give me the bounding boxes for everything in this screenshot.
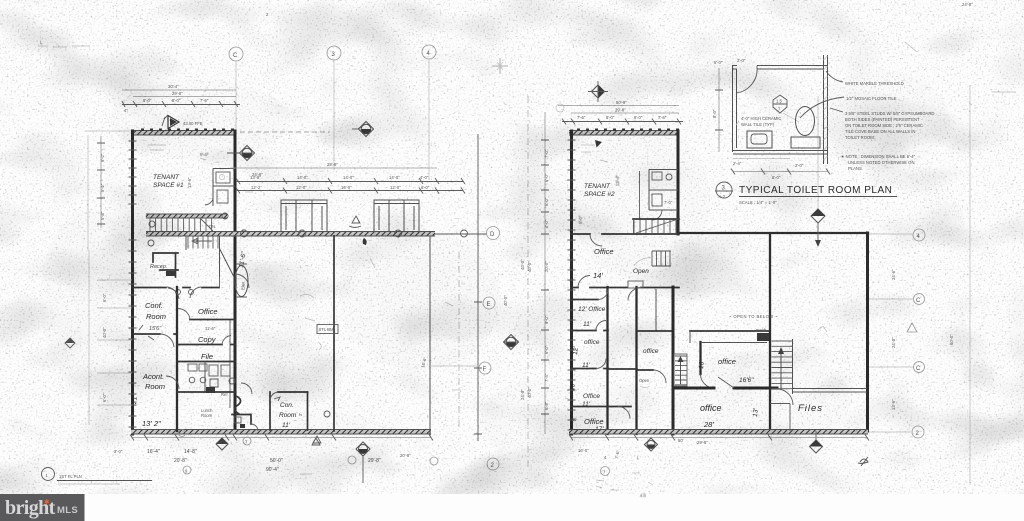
detail title text — [739, 185, 897, 205]
acct room door arc — [166, 376, 179, 389]
storefront wall (hatched) — [146, 232, 487, 237]
office row2 wall — [571, 321, 608, 331]
stray pencil marks bottom centre — [300, 474, 653, 498]
pencil check mark — [818, 326, 827, 332]
con room west wall — [269, 392, 271, 430]
top dimension 30'-4 — [122, 84, 236, 90]
text Lunch Room — [201, 408, 213, 418]
corridor door frame — [628, 281, 643, 288]
north marker diamond — [588, 81, 608, 102]
toilets block — [177, 362, 235, 393]
between plans dim line — [541, 112, 549, 434]
stair lower flight — [186, 236, 234, 277]
right plan bottom circles — [596, 467, 640, 482]
faint mark top right — [905, 2, 1016, 92]
text TENANT SPACE #2 — [584, 183, 615, 198]
toilet detail right wall — [824, 55, 828, 164]
tenant 1 toilet room — [205, 169, 235, 207]
between plans dashed grid — [527, 96, 529, 470]
section diamond upper grid — [352, 122, 374, 137]
wall between open area and office — [769, 234, 771, 431]
right margin bubble row top — [869, 229, 925, 241]
wall office/copy — [178, 308, 235, 319]
stair 3 — [674, 354, 687, 386]
right plan bottom dim texts — [578, 438, 708, 460]
text copy room — [198, 326, 217, 344]
interior wall office column — [176, 287, 178, 431]
storefront dim 29'-8 — [230, 162, 437, 177]
text office row3 — [569, 381, 600, 408]
text Acont Room — [142, 372, 165, 391]
stair upper flight — [146, 214, 227, 231]
storefront bay window 2 — [374, 200, 419, 233]
right margin bubble 2 — [869, 426, 924, 438]
elevator — [235, 264, 248, 297]
top wall mullion dots — [141, 128, 234, 130]
toilet detail left wall — [733, 65, 737, 152]
left wall window ticks — [129, 141, 137, 427]
signature mark — [858, 457, 868, 466]
sink fixture — [747, 131, 772, 148]
bottom diamond 2 — [356, 442, 370, 483]
right plan top dim 50'-2 — [558, 100, 679, 106]
text Conf Room — [145, 301, 166, 332]
bottom arrow diamond — [216, 438, 228, 450]
note white marble threshold — [826, 71, 904, 86]
toilet detail right wall hatch — [824, 56, 828, 160]
corridor cross wall — [608, 368, 637, 370]
grid line D vertical — [477, 134, 479, 441]
survey cross mark — [492, 58, 508, 74]
wall file/toilets — [177, 361, 235, 363]
faint ledger line — [430, 365, 478, 367]
bottom bubbles — [179, 430, 439, 475]
bottom tick line — [130, 435, 433, 441]
right plan tick dims — [562, 115, 683, 125]
note steel studs paragraph — [830, 108, 934, 140]
stair 1 treads — [633, 219, 679, 234]
centre line (dash-dot) — [458, 252, 460, 428]
bubble F low — [479, 362, 491, 374]
bottom bubble labels — [185, 436, 321, 474]
ceramic tile note — [736, 116, 781, 127]
triangle below wall — [312, 438, 320, 445]
svg-text:MLS: MLS — [57, 505, 78, 516]
dark pencil blob — [363, 238, 367, 245]
main wall office28 north — [673, 377, 777, 388]
sheet note bubble — [42, 468, 153, 485]
alcove wall — [690, 330, 770, 332]
wall conf/accounting — [132, 325, 177, 347]
bubble low right — [487, 458, 499, 470]
wall office14 south — [571, 276, 679, 301]
grid bubble 3 — [327, 46, 341, 60]
tenant 2 toilet room — [649, 170, 678, 221]
grid line 3 — [333, 60, 335, 170]
left margin upper dim line — [97, 136, 105, 228]
vestibule curved wall — [235, 396, 241, 414]
stair 1 diagonal break — [636, 219, 678, 233]
bubble E mid — [483, 297, 495, 309]
tenant 2 top wall (hatched) — [569, 131, 679, 136]
dim 40-0 rotated left of right plan — [527, 261, 532, 398]
open marks below room A — [639, 378, 650, 388]
tenant space 1 left wall — [131, 131, 134, 434]
paper speckles — [91, 40, 952, 451]
section marker below right plan — [810, 431, 823, 453]
between plans rotated dims — [544, 149, 549, 410]
stair 2 — [634, 251, 671, 266]
rotated dims right of open area — [503, 259, 525, 400]
corridor inner wall — [655, 289, 657, 331]
paper noise blotches — [40, 70, 950, 470]
note dimension wall — [841, 154, 916, 171]
toilet detail door arc — [736, 66, 757, 94]
text TENANT SPACE #1 — [153, 174, 184, 189]
office 16 west wall — [690, 331, 715, 388]
pencil notes tenant 1 — [148, 145, 253, 192]
right margin bubble C1 — [869, 294, 925, 305]
stair 4 — [772, 339, 793, 394]
right plan left wall window ticks — [568, 140, 576, 430]
top dimension ticks 8'-0 8'-0 7'-6 — [122, 98, 240, 113]
wall under tenant 2 — [571, 234, 679, 246]
corridor east wall — [234, 131, 237, 431]
open area partition wall — [333, 236, 335, 431]
right plan bottom tick line — [569, 435, 869, 441]
grid bubble D — [487, 227, 500, 240]
right section top wall — [679, 232, 868, 234]
dashed leader to toilet — [783, 113, 799, 122]
watermark bright MLS box — [0, 494, 85, 521]
right margin triangle — [907, 323, 917, 332]
top dimension 29'-8 — [133, 91, 236, 97]
interior office room A — [637, 331, 673, 383]
files closet — [770, 404, 790, 432]
tenant 2 pencil notes — [578, 145, 620, 224]
grid line 4 — [428, 59, 430, 180]
right plan bottom wall (hatched) — [569, 430, 868, 435]
left margin window dim lines — [97, 280, 132, 405]
storefront dim row 1 — [236, 175, 465, 184]
office 16 inner wall — [701, 342, 767, 344]
bottom dim texts row A — [147, 449, 411, 464]
grid bubble C — [229, 47, 243, 61]
right plan top dim 29'-8 — [571, 108, 679, 114]
con room north wall — [270, 392, 308, 401]
section diamond right of left plan — [504, 335, 519, 350]
corridor east wall inner line — [229, 319, 231, 408]
top-left faint scribble — [38, 40, 90, 47]
tenant space 1 top wall (hatched) — [131, 131, 236, 136]
office row4 wall — [571, 407, 631, 419]
grid line C continuation — [240, 131, 330, 133]
grid bubble 4 — [422, 45, 436, 59]
office column east wall — [606, 287, 608, 434]
faint grid line into left plan — [85, 130, 131, 132]
toilet fixture — [791, 107, 820, 149]
corridor door arc — [235, 274, 249, 288]
tenant 2 east wall — [677, 131, 680, 234]
text Office 14 — [593, 247, 614, 280]
wall conf room north — [132, 287, 219, 289]
far right faint vertical — [969, 85, 971, 485]
FFE elevation marker — [162, 115, 203, 129]
recep double doors — [167, 287, 201, 298]
reception room — [150, 253, 178, 277]
section marker above right plan — [811, 96, 825, 247]
bottom wall (hatched) — [131, 430, 431, 435]
conference room door arc — [168, 288, 179, 299]
text office 28 — [700, 403, 760, 429]
text office row1 — [578, 306, 606, 328]
pencil delta mark — [349, 216, 361, 228]
left margin lower rotated dims — [102, 293, 107, 402]
section marker diamond at tenant 1 — [227, 146, 255, 161]
storefront wall bubbles — [241, 230, 468, 237]
text Con Room 11 — [279, 402, 297, 429]
storefront bay window 1 — [281, 200, 327, 233]
dark appliance block — [206, 387, 215, 393]
wall copy/file — [177, 336, 235, 345]
vestibule closet — [232, 415, 258, 432]
shield marker A-2 — [773, 95, 787, 113]
corridor east wall — [635, 287, 637, 434]
storefront dim row 2 — [236, 185, 465, 194]
left margin diamond — [65, 338, 75, 348]
svg-text:✱: ✱ — [44, 498, 50, 506]
grid line C — [235, 61, 237, 130]
tenant 2 left wall — [570, 131, 573, 434]
text office 17 — [571, 417, 604, 433]
office row3 wall — [571, 359, 608, 369]
note mosaic floor tile — [800, 96, 897, 118]
circle on partition wall — [324, 411, 330, 417]
toilet detail left dims — [712, 58, 746, 152]
main interior wall — [672, 287, 675, 434]
right margin rotated dims — [891, 269, 896, 410]
toilet detail bottom dims — [731, 159, 830, 181]
bottom dim texts row B — [114, 449, 381, 473]
toilet detail bottom wall — [733, 151, 828, 155]
tenant2 top wall mullion dots — [577, 128, 679, 130]
lobby door arc — [241, 383, 252, 394]
toilet detail top wall — [733, 66, 828, 70]
detail title bubble — [715, 182, 733, 199]
con room east wall — [307, 392, 309, 430]
stair arrow — [192, 239, 212, 244]
stair circles — [148, 213, 228, 246]
open area pencil scribbles — [300, 258, 461, 390]
mech dark box — [756, 328, 771, 342]
text office row2 — [572, 339, 600, 369]
office row1 wall — [571, 290, 608, 300]
files room north wall — [777, 389, 867, 406]
text office 16 — [698, 357, 754, 384]
left margin faint vertical — [88, 250, 90, 425]
small bubble left of dims — [556, 104, 564, 112]
steel beam tag — [317, 325, 338, 334]
stair side wall lower — [219, 277, 221, 287]
door leaf wedge tenant2 — [595, 140, 602, 148]
circle on corridor wall — [229, 378, 235, 384]
column line wall — [429, 236, 431, 436]
section diamond mid bottom — [645, 438, 658, 451]
tenant 2 partition line — [639, 171, 641, 219]
right margin bubble C2 — [869, 362, 925, 373]
right section east wall — [866, 233, 869, 431]
